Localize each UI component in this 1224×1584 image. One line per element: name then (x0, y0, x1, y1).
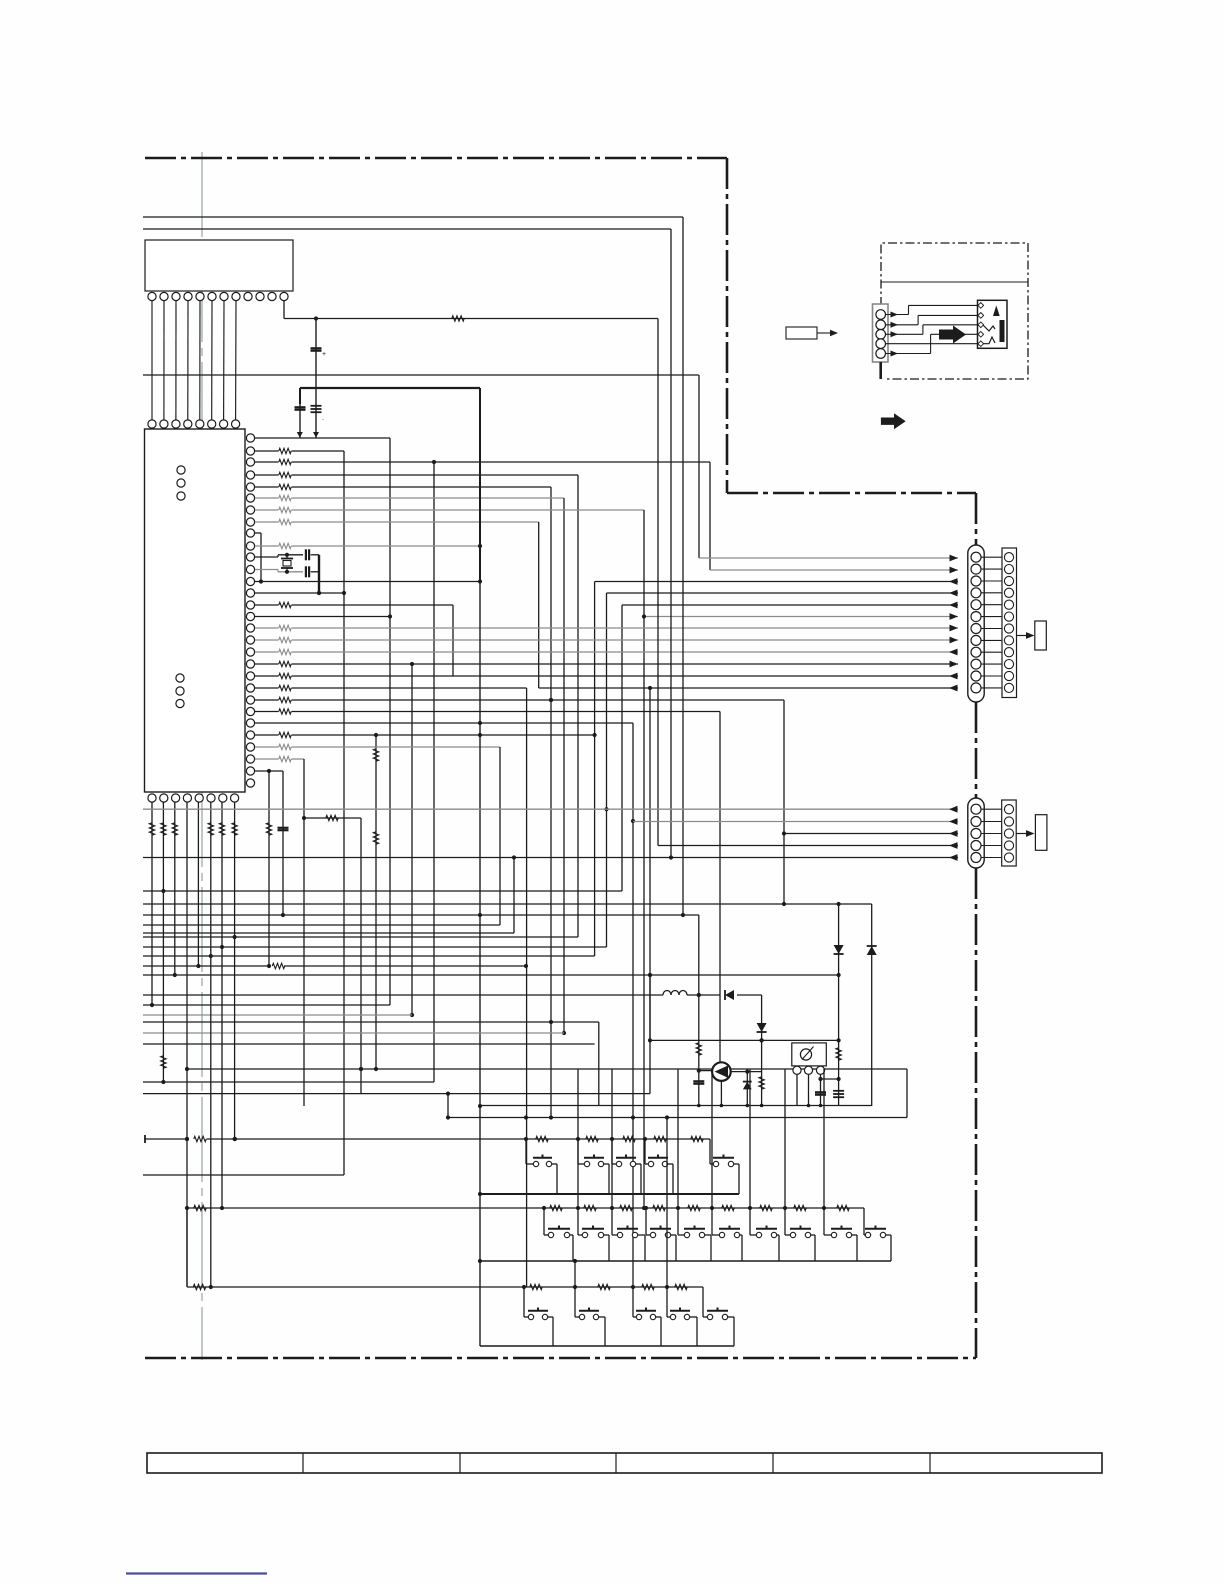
vertical net x720 (to Q1) (719, 712, 721, 1063)
vertical net x710 (709, 462, 711, 570)
wire pin 652 to CN (255, 651, 279, 653)
IC index circles (177, 466, 185, 474)
wire pin 759 (255, 758, 279, 760)
key rail 2-3 link (186, 1208, 188, 1287)
wire pin 711.5 (255, 711, 279, 713)
fold line (gray dash-dot) (201, 152, 203, 1360)
resistor R-sens (838, 1040, 840, 1106)
hp board border (881, 243, 1028, 379)
thick rail x480 (479, 388, 481, 582)
switches SW row2 (548, 1232, 553, 1237)
IC top pins (148, 420, 156, 428)
board border notch (727, 492, 976, 495)
connector CN2 pins (971, 804, 981, 814)
switches SW row1 (533, 1161, 538, 1166)
wire CN1-4 (607, 592, 959, 594)
wire pin 735 (255, 734, 279, 736)
vertical net x644 (643, 510, 645, 1208)
wire CN1-2 (710, 569, 958, 571)
crystal X1 (286, 555, 288, 559)
wire CN2-3 (784, 833, 958, 835)
wire pin 723 (255, 722, 633, 724)
key bus row2 (480, 1260, 891, 1262)
wire bottom pin8 (234, 802, 236, 1139)
wire pin 664 to CN (255, 663, 279, 665)
switch row2 right drops (570, 1234, 573, 1236)
key rail 3 resistors (530, 1284, 542, 1289)
vertical net x598 (598, 1022, 600, 1106)
vertical net x594 (594, 582, 596, 957)
board border top (145, 157, 727, 160)
wire CN2-2 (633, 821, 958, 823)
vertical net x564 (563, 498, 565, 1033)
vertical net x650 (649, 688, 651, 1094)
vertical net x658 (657, 319, 659, 846)
wire pin 451 (255, 450, 279, 452)
IC display block pins (148, 292, 156, 300)
bus y1175 (143, 1174, 344, 1176)
wire CN2-1 (143, 808, 958, 810)
vertical net x784 (783, 700, 785, 904)
wire CN1-6 (644, 616, 958, 618)
wire bottom pin2 (162, 802, 164, 1082)
vertical net x514 (513, 858, 515, 934)
vertical net x606 (606, 593, 608, 947)
wire pin 640 to CN (255, 639, 279, 641)
wire bottom pin1 (151, 802, 153, 1005)
IC right pins (246, 434, 254, 442)
bus y1069 (187, 1068, 907, 1070)
vertical net x361 (360, 818, 362, 1094)
capacitor C-osc2 (305, 566, 307, 577)
key matrix feeder verticals (526, 688, 528, 1287)
switch row2 left stubs (543, 1208, 545, 1235)
bus y1033 (143, 1032, 564, 1034)
sensor pin wires (796, 1075, 798, 1106)
IC display block outline (145, 240, 293, 291)
vertical net x578a (577, 475, 579, 937)
thick rail x319 (318, 555, 320, 593)
key rail 2 resistors (550, 1205, 562, 1210)
key rail 2 drop (863, 1208, 865, 1235)
wire pin 462 (255, 461, 279, 463)
thick rail y388 (300, 387, 480, 389)
key rail 1 (145, 1138, 188, 1140)
wire bus y229 (143, 228, 671, 230)
bus y925 (143, 924, 500, 926)
vertical net x500 (499, 747, 501, 925)
connector CN1 body (968, 545, 984, 702)
bus y966 (143, 965, 269, 967)
wire pin 546 (255, 545, 279, 547)
wire pin 605 (255, 604, 279, 606)
inductor L1 (663, 991, 687, 996)
key rail 1 resistors (536, 1136, 548, 1141)
wire pin 688 (255, 687, 279, 689)
wire bus y375 (143, 374, 699, 376)
bus y1094 (143, 1093, 650, 1095)
diode D3 (725, 990, 734, 1000)
vertical net x434 (433, 462, 435, 1082)
switch row3 right drops (548, 1316, 553, 1318)
bus y956 (143, 955, 595, 957)
title block table (147, 1453, 1102, 1473)
board label rect (786, 327, 817, 339)
switch row1 right drops (552, 1163, 557, 1165)
wire pin 533 stub (255, 532, 261, 534)
wire CN1-5 (622, 604, 958, 606)
bus y933 (143, 932, 514, 934)
board border right upper (726, 158, 729, 493)
diode D4 (746, 1072, 748, 1106)
vertical net x621 (621, 605, 623, 891)
wire CN1-1 (699, 557, 958, 559)
connector CN2 header (1002, 800, 1017, 866)
vertical net x671 (670, 229, 672, 858)
wire bundle sub-box to IC (151, 301, 153, 420)
wire bottom pin6 (210, 802, 212, 1287)
vertical net x453 (452, 605, 454, 676)
wire pin 628 to CN (255, 627, 279, 629)
switch row1 left stubs (525, 1139, 527, 1164)
wire pin 438 net (255, 437, 390, 439)
wire Q1 collector net (731, 1071, 762, 1073)
wire pin 747 (255, 746, 279, 748)
vertical net x683 (682, 217, 684, 915)
bus y1005 (143, 1004, 390, 1006)
bus y1015 (143, 1014, 412, 1016)
key rail 1 drop (709, 1139, 711, 1164)
vertical net x412 (411, 664, 413, 1015)
wire pin 771 (255, 770, 283, 772)
wire net y818 (304, 817, 361, 819)
key bus row1 (480, 1193, 739, 1195)
wire bottom pin5 (197, 802, 199, 966)
connector CN2 body (968, 798, 984, 868)
bus y975 (143, 974, 839, 976)
vertical net x448 (447, 1094, 449, 1118)
wire pin 498 (255, 497, 279, 499)
bus y1022 (143, 1021, 599, 1023)
hp direction arrow (939, 326, 966, 344)
vertical net x650 (649, 975, 651, 1040)
wire bus y217 (143, 216, 683, 218)
vertical net x376 (375, 735, 377, 1069)
signal direction arrow (881, 413, 906, 429)
bus y1040 (650, 1039, 839, 1041)
hp connector CN3 (873, 304, 889, 362)
vertical net x698 (sensor PWR) (698, 915, 700, 1106)
bus y995 (143, 994, 663, 996)
board border bottom (145, 1357, 976, 1360)
wire bottom pin7 (221, 802, 223, 1208)
wire CN1-3 (595, 581, 958, 583)
wire pin 475 (255, 474, 279, 476)
key rail 2 (187, 1207, 864, 1209)
footer rule (126, 1572, 267, 1574)
wire pin 557 (OSC1) (255, 556, 278, 558)
wire pin 676 to CN (255, 675, 279, 677)
IC bottom pins (148, 794, 156, 802)
key rail 1 terminal (144, 1135, 146, 1143)
svg-text:.: . (322, 415, 324, 422)
vertical net x699 (CN1-1 feed) (698, 375, 700, 558)
key bus row3 (480, 1345, 734, 1347)
bus y904 (143, 903, 872, 905)
connector CN1 header (1002, 548, 1017, 698)
capacitor C-top2 (x316) (315, 319, 317, 439)
wire pin 616.5 (255, 616, 390, 618)
wire pin 700 (255, 699, 279, 701)
bus y1105 (gnd/scan) (480, 1105, 872, 1107)
wire bottom pin3 (174, 802, 176, 975)
vertical net x551 (550, 487, 552, 1118)
wire pin 487 (255, 486, 279, 488)
bus y947 (143, 946, 607, 948)
key rail 2 dots (542, 1206, 546, 1210)
capacitor C-s1 (820, 1079, 822, 1106)
wire pin12 to net y318 (283, 301, 285, 319)
diode D1 (838, 904, 840, 1040)
IC main body (145, 429, 246, 792)
hp conn wires (886, 314, 909, 316)
connector CN1 pins (971, 552, 981, 562)
vertical net x304 (303, 759, 305, 1106)
wire pin 593 (255, 592, 344, 594)
bus y915 (143, 914, 699, 916)
switches SW row3 (528, 1314, 533, 1319)
key rail 3 (187, 1286, 703, 1288)
bus y937 (143, 936, 578, 938)
hp board divider (881, 281, 1028, 283)
remote sensor box RS1 (792, 1043, 827, 1066)
wire sensor supply (837, 1077, 841, 1081)
connector CN1 row stubs (982, 556, 1005, 558)
bus y891 (143, 890, 622, 892)
transistor Q1 (712, 1062, 731, 1081)
wire bottom pin4 (key scan) (186, 802, 188, 1287)
hp conn bottom wire (879, 362, 882, 379)
wire pin 581.5 (255, 581, 481, 583)
svg-text:+: + (322, 351, 326, 358)
wire pin 569.5 (OSC2) (255, 569, 278, 571)
wire pin 510 (255, 509, 279, 511)
vertical net x390 (389, 438, 391, 1005)
vertical net x907 (906, 1069, 908, 1118)
vertical net x761 (761, 995, 763, 1106)
bus y1117 (448, 1117, 907, 1119)
switch row3 left stubs (523, 1287, 525, 1317)
wire CN2-4 (658, 845, 958, 847)
wire pin 522 (255, 521, 279, 523)
capacitor C-osc1 (305, 549, 307, 560)
connector CN2 row stubs (982, 808, 1005, 810)
capacitor C-top1 (x300) (299, 388, 301, 404)
bus y1044 (143, 1043, 595, 1045)
vertical net x633 (632, 723, 634, 1287)
board label arrow (817, 332, 830, 334)
hp jack J1 (978, 300, 1008, 348)
vertical net x269 (268, 771, 270, 966)
connector CN2 ref arrow (1017, 833, 1027, 835)
bus y1082 (143, 1081, 434, 1083)
vertical net x344 (343, 451, 345, 1175)
vertical net x538 (538, 522, 540, 688)
key rail 3 drop (702, 1287, 704, 1317)
connector CN1 ref arrow (1017, 635, 1027, 637)
bus y857 to CN2-5 (143, 857, 958, 859)
diode D2 (871, 904, 873, 1106)
wire CN1-12 (539, 687, 958, 689)
board border right (975, 493, 978, 545)
vertical net x283 (282, 771, 284, 915)
